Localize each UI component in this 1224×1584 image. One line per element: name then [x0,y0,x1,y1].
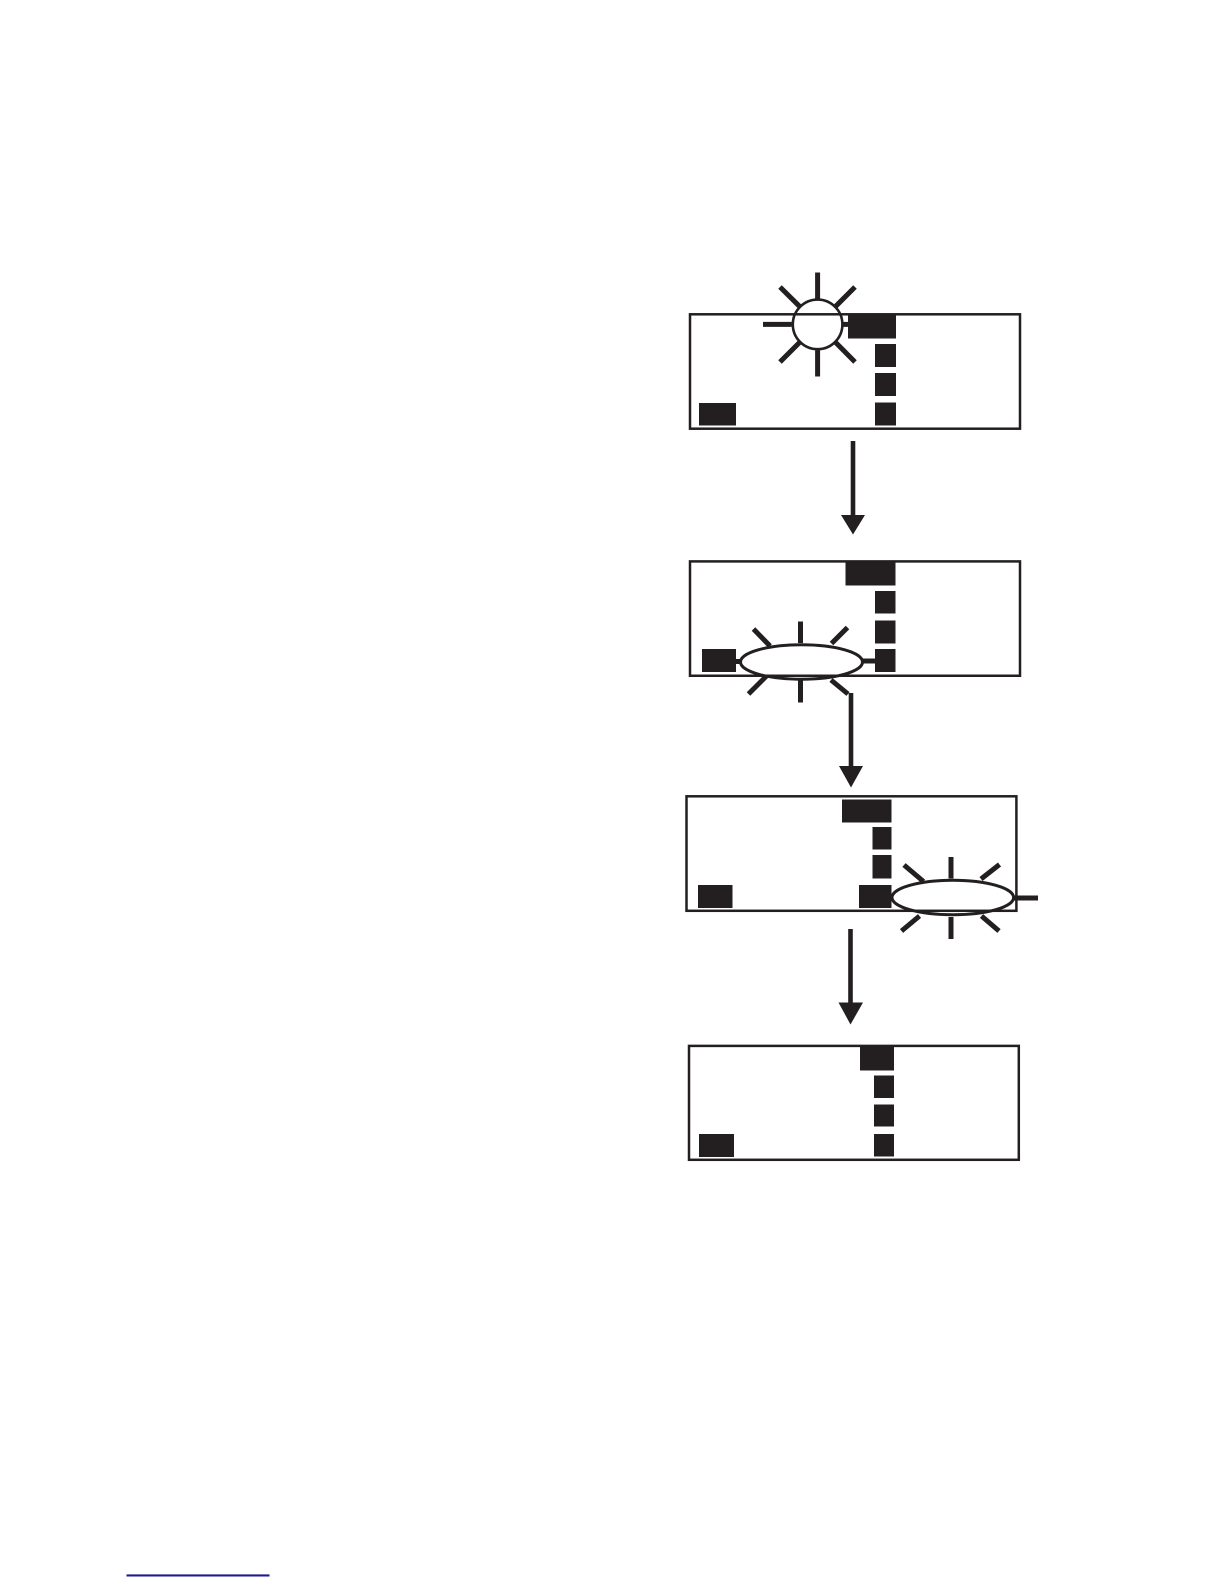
panel 2 key block 1 [875,591,896,614]
panel 1 wide display block [848,315,896,339]
panel 4 display block [860,1047,894,1071]
arrow 3 shaft [848,929,853,1003]
flattened sun ellipse (panel 3 lamp) [892,880,1014,915]
panel 4 bottom-left block [699,1134,734,1157]
panel 3 wide display block [842,800,892,823]
panel 1 key block 1 [875,344,896,367]
panel 1 key block 2 [875,373,896,396]
panel 4 key block 3 [874,1134,894,1157]
panel box 1 [690,314,1020,428]
panel 1 key block 3 [875,403,896,426]
arrow 1 head [841,515,865,535]
sun icon circle (panel 1 lamp) [793,300,843,350]
arrow 3 head [839,1003,864,1025]
footer blue rule [127,1574,270,1576]
panel 1 bottom-left block [699,403,736,426]
panel box 4 [689,1046,1019,1160]
panel 2 key block 3 [875,649,896,672]
arrow 2 shaft [849,693,854,767]
panel 4 key block 2 [874,1105,894,1127]
panel 2 wide display block [846,562,896,586]
panel 3 key block 2 [873,855,892,879]
flattened sun ellipse (panel 2 lamp) [741,645,863,679]
panel 3 key block 3 (wide, beside lamp) [859,885,892,908]
panel box 2 [690,561,1020,675]
panel 3 key block 1 [873,827,892,850]
panel 2 key block 2 [875,621,896,644]
flattened sun rays (panel 3 lamp blinking) [902,857,1039,939]
arrow 2 head [839,766,863,788]
arrow 1 shaft [851,441,856,516]
flattened sun rays (panel 2 lamp blinking) [735,622,875,703]
sun icon rays (panel 1 lamp blinking) [763,273,858,377]
panel 2 bottom-left block [702,649,736,672]
panel 3 bottom-left block [698,885,733,908]
panel 4 key block 1 [874,1076,894,1099]
panel box 3 [687,796,1017,911]
